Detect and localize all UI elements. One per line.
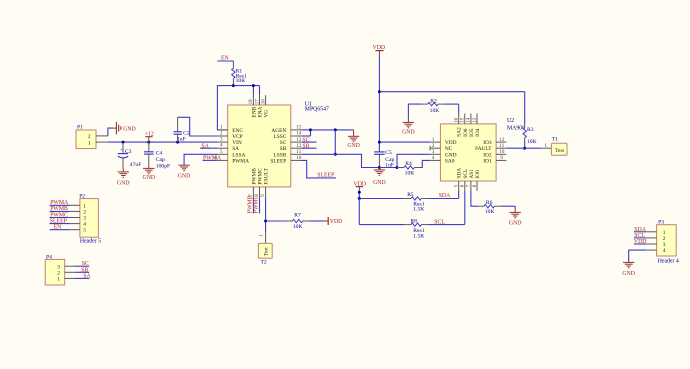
IC U2 MA900 body xyxy=(440,118,525,181)
U1 pin 5 LSSA xyxy=(217,150,245,159)
power port +12 xyxy=(145,131,154,142)
svg-text:FAULT: FAULT xyxy=(264,167,270,184)
svg-text:VDD: VDD xyxy=(330,219,343,225)
svg-text:R4: R4 xyxy=(405,161,412,167)
svg-text:IO6: IO6 xyxy=(463,128,469,137)
wire C2 top to VCP xyxy=(178,117,218,136)
junction VDD-R2 row xyxy=(378,90,381,93)
capacitor C3 47uF polarized xyxy=(118,142,142,169)
svg-text:AS1: AS1 xyxy=(469,169,475,179)
svg-text:GND: GND xyxy=(509,221,522,227)
junction VDD-R5 row xyxy=(358,197,361,200)
svg-text:VDD: VDD xyxy=(634,239,647,245)
svg-text:ENC: ENC xyxy=(232,128,243,134)
header P3 xyxy=(657,220,679,265)
U1 pin 12 SB xyxy=(280,144,302,152)
svg-text:PWMB: PWMB xyxy=(251,168,257,185)
svg-text:Header 4: Header 4 xyxy=(658,258,679,264)
U1 pin 16 VG xyxy=(261,95,269,117)
svg-text:GND: GND xyxy=(143,175,156,181)
svg-text:PWMB: PWMB xyxy=(50,206,68,212)
svg-text:5: 5 xyxy=(83,228,86,234)
svg-text:10K: 10K xyxy=(430,108,440,114)
U2 pin 8 IO0 xyxy=(473,170,481,191)
net label SCL wire to U2 xyxy=(428,191,465,226)
U1 pin 18 ENB xyxy=(249,95,257,117)
P2 pin 2 wire PWMB xyxy=(50,206,80,212)
svg-text:1.5K: 1.5K xyxy=(413,233,424,239)
U2 pin 14 IO5 xyxy=(467,114,475,137)
wire AGEN to ground xyxy=(311,130,354,136)
net label PWMB xyxy=(247,195,253,213)
svg-text:SCL: SCL xyxy=(634,233,645,239)
svg-text:12: 12 xyxy=(296,144,302,149)
U1 pin 14 LSSC xyxy=(273,132,301,140)
junction R3-FAULT xyxy=(523,147,526,150)
svg-text:11: 11 xyxy=(296,150,301,155)
svg-text:SDA: SDA xyxy=(439,193,451,199)
U1 pin 6 PWMA xyxy=(215,156,250,165)
svg-text:1uF: 1uF xyxy=(177,137,186,143)
junction AGEN xyxy=(309,128,312,131)
svg-text:NC: NC xyxy=(445,146,453,152)
op-amp U1 MPQ6547 body xyxy=(228,102,329,187)
junction mid vertical bottom xyxy=(334,153,337,156)
svg-text:LSSB: LSSB xyxy=(273,152,286,158)
U1 pin 7 PWMB xyxy=(249,168,257,197)
svg-text:IO3: IO3 xyxy=(483,140,492,146)
svg-text:VG: VG xyxy=(264,110,270,118)
svg-text:VDD: VDD xyxy=(445,140,457,146)
svg-text:T1: T1 xyxy=(552,137,558,143)
svg-text:R8: R8 xyxy=(410,218,417,224)
P2 pin 4 wire SLEEP xyxy=(50,218,80,224)
junction ENB branch xyxy=(252,84,255,87)
svg-text:16: 16 xyxy=(261,99,266,105)
wire VDD down to SCL row xyxy=(358,199,360,225)
ground R2 xyxy=(402,118,415,136)
svg-text:10K: 10K xyxy=(236,78,246,84)
svg-text:15: 15 xyxy=(296,126,302,131)
connector P1 xyxy=(76,125,108,149)
svg-text:VIN: VIN xyxy=(232,140,242,146)
ground P3 xyxy=(622,262,635,278)
svg-text:GND: GND xyxy=(445,152,457,158)
svg-text:10K: 10K xyxy=(405,171,415,177)
wire P1 pin2 to ground xyxy=(108,128,113,136)
wire VIN rail xyxy=(108,141,217,143)
U2 pin 1 VDD xyxy=(430,138,457,146)
ground bar symbol (P1) xyxy=(113,122,136,134)
U2 pin 5 SDA xyxy=(455,168,463,191)
junction VDD-U2pin1 xyxy=(378,141,381,144)
svg-text:PWMA: PWMA xyxy=(50,200,69,206)
svg-text:SB: SB xyxy=(280,146,287,152)
P2 pin 1 wire PWMA xyxy=(50,200,80,206)
test point T1 xyxy=(541,137,567,156)
junction rail-C2 xyxy=(176,141,179,144)
svg-text:ENA: ENA xyxy=(257,106,263,117)
wire R2 to SA2 pin xyxy=(458,104,460,113)
svg-text:GND: GND xyxy=(347,143,360,149)
svg-text:4: 4 xyxy=(663,248,666,254)
P2 pin 5 wire EN xyxy=(50,225,80,231)
svg-text:IO0: IO0 xyxy=(475,170,481,179)
svg-text:1: 1 xyxy=(88,140,91,146)
svg-text:100pF: 100pF xyxy=(156,163,170,169)
svg-text:14: 14 xyxy=(296,132,302,137)
net label SDA wire to U2 xyxy=(428,191,459,199)
wire AGEN-LSSC jog xyxy=(301,130,310,136)
svg-text:Header 5: Header 5 xyxy=(80,238,101,244)
svg-text:1: 1 xyxy=(57,277,60,283)
resistor R2 10K xyxy=(408,98,458,117)
U1 pin 4 SA xyxy=(217,144,239,153)
wire gnd rail to R4 xyxy=(379,167,397,169)
svg-text:13: 13 xyxy=(473,117,478,123)
svg-text:IO1: IO1 xyxy=(483,158,492,164)
ground AGEN xyxy=(347,136,360,149)
wire FAULT down xyxy=(265,197,267,233)
svg-text:T2: T2 xyxy=(261,259,267,265)
ground C3 xyxy=(117,169,130,187)
svg-text:1: 1 xyxy=(663,230,666,236)
U2 pin 2 NC xyxy=(430,144,453,152)
U2 pin 3 GND xyxy=(430,150,457,158)
svg-text:3: 3 xyxy=(83,216,86,222)
svg-text:2: 2 xyxy=(88,134,91,140)
svg-text:ENB: ENB xyxy=(251,106,257,117)
ground R6 xyxy=(509,206,522,226)
power port VDD top xyxy=(373,45,386,92)
P4 pin 1 wire SA xyxy=(65,273,92,279)
svg-text:1: 1 xyxy=(83,203,86,209)
U2 pin 15 IO6 xyxy=(461,114,469,137)
resistor R1 10K xyxy=(232,61,247,86)
svg-text:12: 12 xyxy=(499,138,505,143)
junction rail-C4 xyxy=(147,141,150,144)
svg-text:SCL: SCL xyxy=(434,219,445,225)
svg-text:SLEEP: SLEEP xyxy=(317,173,334,179)
P4 pin 3 wire SC xyxy=(65,261,90,267)
svg-text:C2: C2 xyxy=(183,130,190,136)
U1 pin 9 FAULT xyxy=(261,167,270,197)
ground C5 xyxy=(373,168,386,187)
svg-text:R6: R6 xyxy=(486,200,493,206)
U2 pin 13 IO4 xyxy=(473,114,481,137)
svg-text:SC: SC xyxy=(280,140,287,146)
svg-text:GND: GND xyxy=(123,127,136,133)
U2 pin 4 SA0 xyxy=(430,156,455,164)
svg-text:10K: 10K xyxy=(527,139,537,145)
svg-text:2: 2 xyxy=(663,236,666,242)
wire VDD vertical xyxy=(378,92,380,152)
svg-text:SB: SB xyxy=(81,267,88,273)
wire vertical gnd tie xyxy=(334,130,336,154)
resistor R3 10K xyxy=(523,92,537,149)
svg-text:Cap: Cap xyxy=(156,157,165,163)
P3 pin 1 wire SDA xyxy=(634,227,657,233)
U1 pin 8 PWMC xyxy=(255,168,264,197)
junction C5 bottom xyxy=(378,166,381,169)
svg-text:PWMA: PWMA xyxy=(232,158,249,164)
wire FAULT to T1 xyxy=(506,147,541,149)
wire LSSA to ground xyxy=(184,154,217,165)
capacitor C5 1uF xyxy=(374,150,394,169)
resistor R6 10K xyxy=(471,191,515,215)
net label SA xyxy=(200,143,217,149)
svg-text:IO5: IO5 xyxy=(469,128,475,137)
resistor R4 10K xyxy=(397,160,430,176)
wire LSSB to C5 gnd rail xyxy=(301,154,379,167)
svg-text:15: 15 xyxy=(461,117,466,123)
P4 pin 2 wire SB xyxy=(65,267,90,273)
svg-text:2: 2 xyxy=(83,209,86,215)
svg-text:LSSA: LSSA xyxy=(232,152,245,158)
svg-text:SCL: SCL xyxy=(463,169,469,179)
junction rail-C3 xyxy=(122,141,125,144)
svg-text:MPQ6547: MPQ6547 xyxy=(305,107,329,113)
U1 pin 3 VIN xyxy=(217,138,241,147)
junction mid vertical top xyxy=(334,128,337,131)
svg-text:SC: SC xyxy=(82,261,89,267)
svg-text:GND: GND xyxy=(373,180,386,186)
svg-text:R2: R2 xyxy=(430,98,437,104)
U1 pin 11 LSSB xyxy=(273,150,301,158)
svg-text:PWMC: PWMC xyxy=(50,212,68,218)
svg-text:3: 3 xyxy=(57,264,60,270)
svg-text:C3: C3 xyxy=(125,149,132,155)
svg-text:11: 11 xyxy=(499,144,504,149)
svg-text:SA0: SA0 xyxy=(445,158,455,164)
P2 pin 3 wire PWMC xyxy=(50,212,80,218)
svg-text:GND: GND xyxy=(622,271,635,277)
svg-text:R3: R3 xyxy=(527,127,534,133)
power port VDD lower xyxy=(354,181,367,198)
U1 pin 10 SLEEP xyxy=(270,156,301,164)
svg-text:18: 18 xyxy=(249,99,254,105)
U2 pin 7 AS1 xyxy=(467,169,475,191)
junction FAULT-R7 xyxy=(264,220,267,223)
svg-text:SA2: SA2 xyxy=(457,127,463,137)
svg-text:10K: 10K xyxy=(485,209,495,215)
svg-text:PWMC: PWMC xyxy=(257,168,263,185)
U1 pin 13 SC xyxy=(280,138,302,146)
net label PWMA xyxy=(203,156,222,162)
svg-text:SDA: SDA xyxy=(634,227,646,233)
wire VDD top horizontal xyxy=(379,91,524,93)
svg-text:10: 10 xyxy=(499,150,505,155)
svg-text:SDA: SDA xyxy=(457,168,463,179)
net label SLEEP xyxy=(301,160,336,178)
capacitor C2 1uF xyxy=(174,117,190,142)
svg-text:4: 4 xyxy=(83,222,86,228)
U2 pin 11 FAULT xyxy=(475,144,506,152)
svg-text:14: 14 xyxy=(467,117,472,123)
svg-text:SLEEP: SLEEP xyxy=(50,218,67,224)
P3 pin 4 wire to ground xyxy=(629,250,657,261)
svg-text:U2: U2 xyxy=(507,118,514,124)
svg-text:GND: GND xyxy=(117,181,130,187)
svg-text:IO4: IO4 xyxy=(475,128,481,137)
header P4 xyxy=(45,255,64,286)
svg-text:10: 10 xyxy=(296,156,302,161)
wire EN to ENC xyxy=(217,86,233,130)
svg-text:IO2: IO2 xyxy=(483,152,492,158)
svg-text:1.5K: 1.5K xyxy=(413,207,424,213)
junction R4-gnd xyxy=(396,166,399,169)
test point T2 xyxy=(258,233,272,265)
resistor R7 10K xyxy=(266,213,325,230)
svg-text:10K: 10K xyxy=(293,224,303,230)
svg-text:+: + xyxy=(120,148,123,153)
ground LSSA xyxy=(178,165,191,180)
net label SB xyxy=(301,143,316,149)
svg-text:VCP: VCP xyxy=(232,134,243,140)
U1 pin 2 VCP xyxy=(217,132,242,141)
svg-text:3: 3 xyxy=(663,242,666,248)
svg-text:47uF: 47uF xyxy=(130,162,142,168)
U1 pin 15 AGEN xyxy=(271,126,302,134)
svg-text:PWMC: PWMC xyxy=(254,195,260,213)
U1 pin 1 ENC xyxy=(217,125,243,134)
svg-text:13: 13 xyxy=(296,138,302,143)
net label PWMC xyxy=(254,195,260,213)
U2 pin 9 IO1 xyxy=(483,156,506,164)
wire VDD to U2 VDD pin xyxy=(379,141,430,143)
svg-text:C5: C5 xyxy=(385,150,392,156)
ground C4 xyxy=(143,165,156,181)
svg-text:C4: C4 xyxy=(156,150,163,156)
svg-text:16: 16 xyxy=(455,117,460,123)
U2 pin 16 SA2 xyxy=(455,114,463,137)
svg-text:Test: Test xyxy=(555,148,564,154)
header P2 xyxy=(79,193,101,244)
U2 pin 6 SCL xyxy=(461,169,469,191)
wire U2 GND pin down xyxy=(397,154,430,167)
resistor R5 1.5K xyxy=(359,192,428,212)
svg-text:EN: EN xyxy=(54,225,63,231)
svg-text:PWMB: PWMB xyxy=(247,195,253,213)
U2 pin 12 IO3 xyxy=(483,138,506,146)
svg-text:SA: SA xyxy=(232,146,239,152)
svg-text:R7: R7 xyxy=(294,213,301,219)
P3 pin 2 wire SCL xyxy=(634,233,657,239)
capacitor C4 100pF xyxy=(144,142,170,169)
junction R1 bottom xyxy=(232,84,235,87)
svg-text:SLEEP: SLEEP xyxy=(270,158,286,164)
svg-text:FAULT: FAULT xyxy=(475,146,492,152)
power port VDD right of R7 xyxy=(325,217,343,225)
svg-text:AGEN: AGEN xyxy=(271,128,286,134)
svg-text:Test: Test xyxy=(263,247,269,256)
wire R1 to ENB/ENA xyxy=(233,86,259,96)
net label EN xyxy=(217,56,233,62)
junction VDD lower stub xyxy=(358,191,361,194)
svg-text:SA: SA xyxy=(83,273,91,279)
svg-text:GND: GND xyxy=(178,173,191,179)
svg-text:R5: R5 xyxy=(407,192,414,198)
svg-text:17: 17 xyxy=(255,99,260,105)
svg-text:LSSC: LSSC xyxy=(273,134,286,140)
U1 pin 17 ENA xyxy=(255,95,263,117)
net label SC xyxy=(301,137,316,143)
svg-text:2: 2 xyxy=(57,270,60,276)
U2 pin 10 IO2 xyxy=(483,150,506,158)
resistor R8 1.5K xyxy=(359,218,428,239)
svg-text:GND: GND xyxy=(402,129,415,135)
P3 pin 3 wire VDD xyxy=(634,239,657,245)
